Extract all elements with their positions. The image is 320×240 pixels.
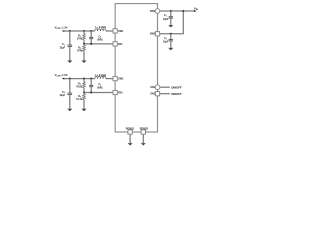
- node junction R3/rail: [83, 78, 85, 80]
- resistor R2: [77, 44, 85, 61]
- ground (R4): [81, 108, 86, 111]
- wire L2 to SW2: [106, 78, 113, 80]
- node junction R3/R4/FB2: [83, 91, 85, 93]
- node junction C6/FB2: [90, 91, 92, 93]
- svg-text:SW2: SW2: [118, 78, 124, 81]
- svg-text:76.8k: 76.8k: [76, 86, 83, 89]
- pin GND1 (AGND): [128, 130, 132, 134]
- node junction C8/rail: [69, 78, 71, 80]
- capacitor C2: [163, 34, 173, 48]
- terminal arrow VOUT1: [62, 30, 65, 32]
- wire VIN2 to riser: [160, 11, 184, 34]
- ground (C7): [67, 60, 72, 63]
- capacitor C7: [60, 31, 73, 60]
- svg-text:VIN1: VIN1: [150, 10, 156, 13]
- svg-text:(NR): (NR): [97, 87, 102, 90]
- resistor R3: [76, 79, 85, 93]
- node junction C2/VIN2: [170, 33, 172, 35]
- pin EN1: [155, 85, 160, 90]
- pin GND2 (PGND): [141, 130, 145, 134]
- wire VOUT1 rail: [64, 30, 95, 32]
- svg-text:51.1k: 51.1k: [76, 98, 83, 101]
- wire EN2 to ON/OFF: [160, 93, 170, 95]
- pin FB1: [113, 42, 117, 46]
- capacitor C6 feedforward: [89, 79, 102, 93]
- resistor R4: [76, 93, 85, 109]
- wire VOUT2 rail: [64, 78, 95, 80]
- wire EN1 to ON/OFF: [160, 86, 170, 88]
- terminal arrow VOUT2: [62, 78, 65, 80]
- pin EN2: [155, 92, 159, 96]
- wire VIN1 to supply: [160, 10, 195, 12]
- svg-text:VOUT2 1.5V: VOUT2 1.5V: [55, 73, 68, 77]
- svg-text:VIN2: VIN2: [150, 33, 156, 36]
- node junction C1/VIN1: [170, 10, 172, 12]
- pin SW2: [113, 76, 117, 80]
- node junction R1/rail: [83, 30, 85, 32]
- ground (C8): [67, 108, 72, 111]
- node junction C7/rail: [69, 30, 71, 32]
- svg-text:PGND1: PGND1: [126, 127, 135, 130]
- inductor L2: [95, 76, 106, 78]
- svg-text:PGND2: PGND2: [140, 127, 149, 130]
- ground (R2): [81, 60, 86, 63]
- wire FB1 line: [84, 43, 113, 45]
- capacitor C1: [163, 11, 173, 25]
- svg-text:(NR): (NR): [97, 39, 102, 42]
- ground (GND1): [128, 143, 133, 146]
- node junction C6/rail: [90, 78, 92, 80]
- pin FB2: [113, 90, 117, 94]
- inductor L1: [95, 29, 106, 31]
- svg-text:VIN: VIN: [194, 7, 199, 11]
- svg-text:L1 2.2µH: L1 2.2µH: [95, 25, 106, 29]
- pin VIN2: [155, 32, 159, 36]
- svg-text:10µF: 10µF: [163, 41, 169, 44]
- wire FB2 line: [84, 92, 113, 94]
- svg-text:10µF: 10µF: [163, 18, 169, 21]
- svg-text:SW1: SW1: [118, 30, 124, 33]
- ground (GND2): [141, 143, 146, 146]
- svg-text:EN2: EN2: [150, 93, 155, 96]
- svg-text:EN1: EN1: [150, 86, 155, 89]
- IC U1 body: [115, 4, 157, 132]
- wire L1 to SW1: [106, 30, 113, 32]
- svg-text:22µF: 22µF: [60, 47, 66, 50]
- svg-text:L2 2.2µH: L2 2.2µH: [95, 73, 106, 77]
- node junction C5/rail: [90, 30, 92, 32]
- ground (C1): [168, 25, 173, 28]
- svg-text:22µF: 22µF: [60, 94, 66, 97]
- capacitor C8: [60, 79, 73, 109]
- terminal arrow VIN supply: [194, 10, 197, 12]
- svg-text:ON/OFF: ON/OFF: [171, 85, 182, 89]
- svg-text:FB2: FB2: [118, 91, 123, 94]
- svg-text:ON/OFF: ON/OFF: [171, 92, 182, 96]
- node junction R1/R2/FB1: [83, 43, 85, 45]
- svg-text:374k: 374k: [77, 50, 83, 53]
- pin SW1: [113, 29, 117, 33]
- pin VIN1: [155, 9, 160, 14]
- wire GND1 to ground: [129, 134, 131, 143]
- node junction C5/FB1: [90, 43, 92, 45]
- svg-text:374k: 374k: [77, 38, 83, 41]
- capacitor C5 feedforward: [89, 31, 102, 44]
- resistor R1: [77, 31, 85, 44]
- ground (C2): [168, 47, 173, 50]
- node junction riser/VIN1: [182, 10, 184, 12]
- svg-text:FB1: FB1: [118, 43, 123, 46]
- wire GND2 to ground: [142, 134, 144, 143]
- svg-text:VOUT1 1.2V: VOUT1 1.2V: [55, 26, 68, 30]
